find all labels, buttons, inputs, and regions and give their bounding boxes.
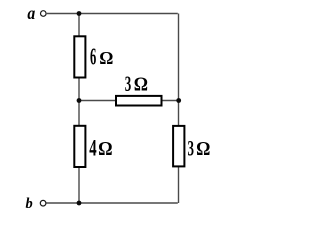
svg-text:Ω: Ω [99, 48, 113, 68]
wire middle: middle node to horizontal 3-ohm resistor [79, 100, 116, 102]
wire bottom: terminal b to bottom-right corner [47, 202, 178, 204]
resistor R3 3-ohm vertical body [173, 126, 184, 166]
resistor R4 3-ohm horizontal body [116, 96, 162, 106]
node junction top [77, 11, 82, 16]
svg-text:Ω: Ω [196, 138, 210, 160]
wire left branch: node a to 6-ohm resistor [78, 14, 80, 37]
wire left branch: 6-ohm resistor to middle node [78, 78, 80, 126]
node junction middle-left [77, 98, 82, 103]
svg-text:a: a [27, 3, 35, 23]
svg-text:3: 3 [188, 136, 194, 161]
label 3 ohm value (right resistor) [188, 136, 211, 161]
svg-text:3: 3 [125, 71, 131, 96]
wire left branch: 4-ohm resistor to bottom wire [78, 168, 80, 204]
label 3 ohm value (horizontal resistor) [125, 71, 148, 96]
terminal a circle [41, 11, 47, 17]
terminal b circle [40, 200, 46, 206]
svg-text:Ω: Ω [98, 138, 112, 160]
svg-text:b: b [26, 196, 33, 212]
label 6 ohm value [90, 45, 113, 71]
node junction bottom [77, 201, 82, 206]
resistor R2 4-ohm body [74, 126, 85, 167]
svg-text:4: 4 [89, 136, 97, 161]
wire right vertical: top corner down to 3-ohm resistor [178, 14, 180, 126]
node junction middle-right [176, 98, 181, 103]
label 4 ohm value [89, 136, 112, 161]
wire middle: horizontal 3-ohm resistor to right branch [162, 100, 179, 102]
wire top: terminal a to top-right corner [47, 13, 178, 15]
svg-text:6: 6 [90, 45, 97, 71]
resistor R1 6-ohm body [74, 36, 85, 77]
svg-text:Ω: Ω [134, 74, 148, 96]
wire right vertical: below 3-ohm resistor to bottom corner [178, 167, 180, 203]
